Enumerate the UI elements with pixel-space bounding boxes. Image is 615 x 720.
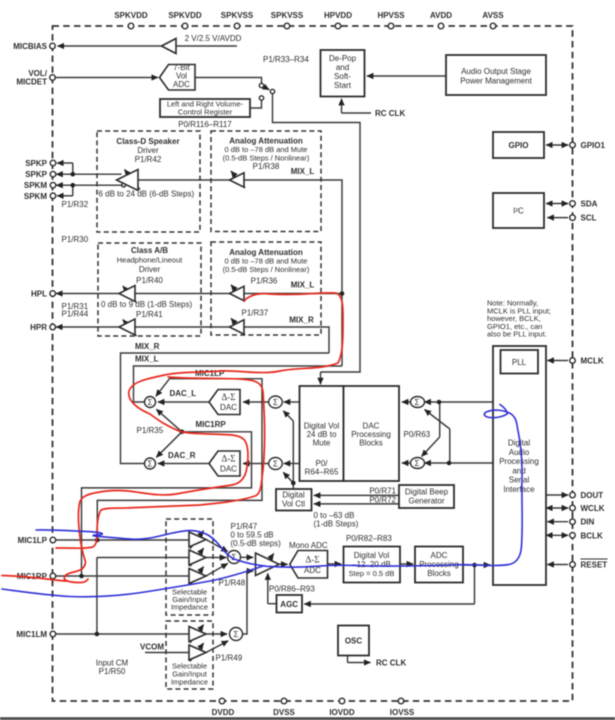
svg-text:MCLK: MCLK xyxy=(581,357,604,366)
svg-text:PLL: PLL xyxy=(512,358,527,367)
svg-text:HPVDD: HPVDD xyxy=(324,11,352,20)
svg-text:Step = 0.5 dB: Step = 0.5 dB xyxy=(349,569,395,578)
svg-text:Generator: Generator xyxy=(408,497,444,506)
svg-text:SPKP: SPKP xyxy=(25,170,47,179)
svg-text:MIX_R: MIX_R xyxy=(289,316,314,325)
svg-text:SPKVSS: SPKVSS xyxy=(221,11,254,20)
svg-text:P1/R30: P1/R30 xyxy=(62,235,89,244)
svg-text:Σ: Σ xyxy=(415,398,420,407)
svg-text:VCOM: VCOM xyxy=(140,643,164,652)
svg-text:MIX_R: MIX_R xyxy=(135,342,160,351)
svg-text:P0/R86–R93: P0/R86–R93 xyxy=(269,585,315,594)
svg-text:SPKP: SPKP xyxy=(25,159,47,168)
svg-text:Impedance: Impedance xyxy=(171,678,208,687)
svg-text:De-Pop: De-Pop xyxy=(329,54,357,63)
svg-text:OSC: OSC xyxy=(345,637,363,646)
svg-text:Digital Beep: Digital Beep xyxy=(405,488,449,497)
svg-text:DAC: DAC xyxy=(220,403,237,412)
svg-text:Digital Vol: Digital Vol xyxy=(354,551,390,560)
svg-text:P1/R38: P1/R38 xyxy=(253,162,280,171)
svg-text:Power Management: Power Management xyxy=(460,77,532,86)
svg-text:ADC: ADC xyxy=(431,551,448,560)
svg-text:RESET: RESET xyxy=(581,561,608,570)
svg-text:P1/R49: P1/R49 xyxy=(216,654,243,663)
svg-text:P0/R72: P0/R72 xyxy=(369,495,396,504)
svg-text:SPKVDD: SPKVDD xyxy=(114,11,148,20)
svg-text:0 dB to 9 dB (1-dB Steps): 0 dB to 9 dB (1-dB Steps) xyxy=(101,300,192,309)
svg-text:MIX_L: MIX_L xyxy=(291,281,315,290)
svg-text:Mute: Mute xyxy=(313,439,331,448)
svg-text:DAC_L: DAC_L xyxy=(170,389,197,398)
svg-text:Σ: Σ xyxy=(148,398,153,407)
svg-text:(0.5-dB Steps / Nonlinear): (0.5-dB Steps / Nonlinear) xyxy=(223,265,310,274)
svg-text:MIX_L: MIX_L xyxy=(135,355,159,364)
svg-text:DAC: DAC xyxy=(220,465,237,474)
svg-text:DAC_R: DAC_R xyxy=(168,451,196,460)
svg-text:MICDET: MICDET xyxy=(16,78,47,87)
svg-text:P1/R41: P1/R41 xyxy=(136,310,163,319)
svg-text:P1/R44: P1/R44 xyxy=(62,310,89,319)
svg-text:Digital: Digital xyxy=(282,491,304,500)
svg-text:SPKM: SPKM xyxy=(24,192,47,201)
svg-text:also be PLL input.: also be PLL input. xyxy=(487,330,547,339)
svg-text:P1/R48: P1/R48 xyxy=(219,579,246,588)
svg-text:SPKVDD: SPKVDD xyxy=(168,11,202,20)
svg-text:Mono ADC: Mono ADC xyxy=(289,541,328,550)
svg-text:6 dB to 24 dB (6-dB Steps): 6 dB to 24 dB (6-dB Steps) xyxy=(99,190,195,199)
svg-text:Σ: Σ xyxy=(273,459,278,468)
svg-text:and: and xyxy=(336,63,349,72)
svg-text:HPL: HPL xyxy=(31,290,47,299)
svg-text:P1/R33–R34: P1/R33–R34 xyxy=(263,55,309,64)
svg-text:Class-D Speaker: Class-D Speaker xyxy=(116,137,179,146)
svg-text:IOVDD: IOVDD xyxy=(329,708,355,717)
svg-text:–12..20 dB: –12..20 dB xyxy=(352,560,391,569)
svg-text:P1/R50: P1/R50 xyxy=(99,667,126,676)
svg-text:RC CLK: RC CLK xyxy=(375,109,405,118)
svg-text:SPKVSS: SPKVSS xyxy=(271,11,304,20)
svg-text:Control Register: Control Register xyxy=(178,108,233,117)
svg-text:MIC1LM: MIC1LM xyxy=(16,630,47,639)
svg-text:Δ-Σ: Δ-Σ xyxy=(221,454,235,464)
svg-text:P0/R63: P0/R63 xyxy=(404,430,431,439)
svg-text:Driver: Driver xyxy=(137,146,159,155)
svg-text:DVSS: DVSS xyxy=(273,708,295,717)
svg-text:Soft-: Soft- xyxy=(334,72,351,81)
svg-text:BCLK: BCLK xyxy=(581,531,603,540)
svg-text:P0/R82–R83: P0/R82–R83 xyxy=(346,534,392,543)
svg-text:(1-dB Steps): (1-dB Steps) xyxy=(314,520,359,529)
svg-text:P1/R42: P1/R42 xyxy=(135,155,162,164)
svg-text:Σ: Σ xyxy=(148,459,153,468)
svg-text:SDA: SDA xyxy=(581,200,598,209)
svg-text:P1/R36: P1/R36 xyxy=(251,277,278,286)
svg-text:SPKM: SPKM xyxy=(24,181,47,190)
svg-text:P0/R71: P0/R71 xyxy=(369,487,396,496)
svg-text:Interface: Interface xyxy=(503,485,535,494)
svg-text:AGC: AGC xyxy=(280,600,298,609)
svg-text:Serial: Serial xyxy=(509,476,530,485)
svg-text:GPIO: GPIO xyxy=(508,141,528,150)
svg-text:Driver: Driver xyxy=(139,265,161,274)
svg-text:P1/R32: P1/R32 xyxy=(62,200,89,209)
svg-text:Σ: Σ xyxy=(273,398,278,407)
svg-text:IOVSS: IOVSS xyxy=(390,708,415,717)
svg-text:Blocks: Blocks xyxy=(359,439,383,448)
svg-text:Δ-Σ: Δ-Σ xyxy=(221,392,235,402)
svg-text:2 V/2.5 V/AVDD: 2 V/2.5 V/AVDD xyxy=(185,34,242,43)
svg-text:MIC1RP: MIC1RP xyxy=(196,420,227,429)
svg-text:Processing: Processing xyxy=(499,457,539,466)
svg-text:MIC1LP: MIC1LP xyxy=(18,536,48,545)
svg-text:RC CLK: RC CLK xyxy=(376,659,406,668)
svg-text:MICBIAS: MICBIAS xyxy=(13,42,47,51)
svg-text:GPIO1: GPIO1 xyxy=(581,141,606,150)
svg-text:Audio: Audio xyxy=(509,448,530,457)
svg-text:P1/R40: P1/R40 xyxy=(136,276,163,285)
svg-text:AVDD: AVDD xyxy=(430,11,452,20)
svg-text:WCLK: WCLK xyxy=(581,504,605,513)
svg-text:I²C: I²C xyxy=(513,207,524,216)
svg-text:SCL: SCL xyxy=(581,214,597,223)
svg-text:P1/R35: P1/R35 xyxy=(137,426,164,435)
svg-text:R64–R65: R64–R65 xyxy=(305,468,339,477)
svg-text:MIX_L: MIX_L xyxy=(291,167,315,176)
svg-text:Blocks: Blocks xyxy=(427,569,451,578)
svg-text:HPVSS: HPVSS xyxy=(377,11,405,20)
svg-text:and: and xyxy=(512,466,525,475)
svg-text:Start: Start xyxy=(334,81,352,90)
svg-text:Class A/B: Class A/B xyxy=(131,246,168,255)
svg-text:Σ: Σ xyxy=(415,459,420,468)
svg-text:Σ: Σ xyxy=(234,630,239,639)
svg-text:DIN: DIN xyxy=(581,518,595,527)
svg-text:Audio Output Stage: Audio Output Stage xyxy=(461,67,531,76)
svg-text:(0.5-dB steps): (0.5-dB steps) xyxy=(231,539,282,548)
svg-text:Δ-Σ: Δ-Σ xyxy=(305,555,319,565)
svg-text:Vol Ctl: Vol Ctl xyxy=(282,500,305,509)
svg-text:ADC: ADC xyxy=(173,80,190,89)
svg-text:AVSS: AVSS xyxy=(482,11,504,20)
svg-text:HPR: HPR xyxy=(30,323,47,332)
svg-text:P0/R116–R117: P0/R116–R117 xyxy=(178,120,232,129)
svg-text:Impedance: Impedance xyxy=(171,603,208,612)
svg-text:Headphone/Lineout: Headphone/Lineout xyxy=(117,256,183,265)
svg-text:DOUT: DOUT xyxy=(581,491,604,500)
svg-text:P1/R37: P1/R37 xyxy=(242,309,269,318)
svg-text:DVDD: DVDD xyxy=(212,708,235,717)
